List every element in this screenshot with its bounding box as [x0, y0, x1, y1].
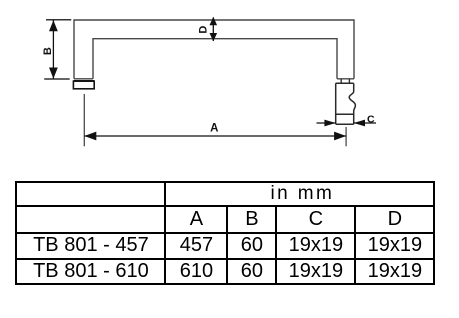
dim C right arrow	[354, 120, 365, 127]
dim B arrow up	[49, 20, 58, 31]
left base plate thick top	[73, 80, 94, 82]
row: in mm header	[16, 182, 434, 284]
dim B extension line top	[46, 19, 71, 21]
right cylinder top	[336, 82, 354, 84]
svg-text:B: B	[42, 47, 54, 55]
dim C right line	[354, 122, 376, 124]
dim C left line	[317, 122, 336, 124]
handle inner outline	[93, 39, 337, 79]
dim A right arrow	[334, 132, 346, 141]
dim A left arrow	[84, 132, 96, 141]
right cylinder left edge	[335, 83, 337, 124]
right centerline	[345, 127, 347, 146]
right cylinder bottom	[336, 123, 354, 125]
handle outer outline	[74, 20, 354, 79]
dim B extension line bottom	[44, 78, 69, 80]
dim A line	[84, 135, 346, 137]
svg-text:D: D	[197, 26, 209, 34]
svg-text:C: C	[367, 114, 375, 126]
left grip end line	[74, 78, 93, 80]
right cylinder divider line	[336, 113, 354, 115]
dim D arrow down	[210, 33, 218, 41]
right cylinder wavy break edge	[349, 83, 355, 124]
dim D line	[212, 18, 214, 42]
row: TB 801 - 610	[16, 259, 434, 284]
row: column headers A B C D	[16, 206, 434, 233]
dim C left arrow	[324, 120, 335, 127]
dim B line	[52, 20, 54, 79]
dim D arrow up	[210, 17, 218, 25]
dimension table	[15, 181, 435, 285]
right neck lines	[341, 79, 349, 83]
svg-text:A: A	[210, 123, 218, 135]
left base plate	[73, 81, 94, 89]
row: TB 801 - 457	[16, 233, 434, 259]
right grip end line	[337, 78, 354, 80]
left centerline	[83, 94, 85, 146]
dim B arrow down	[49, 68, 58, 79]
